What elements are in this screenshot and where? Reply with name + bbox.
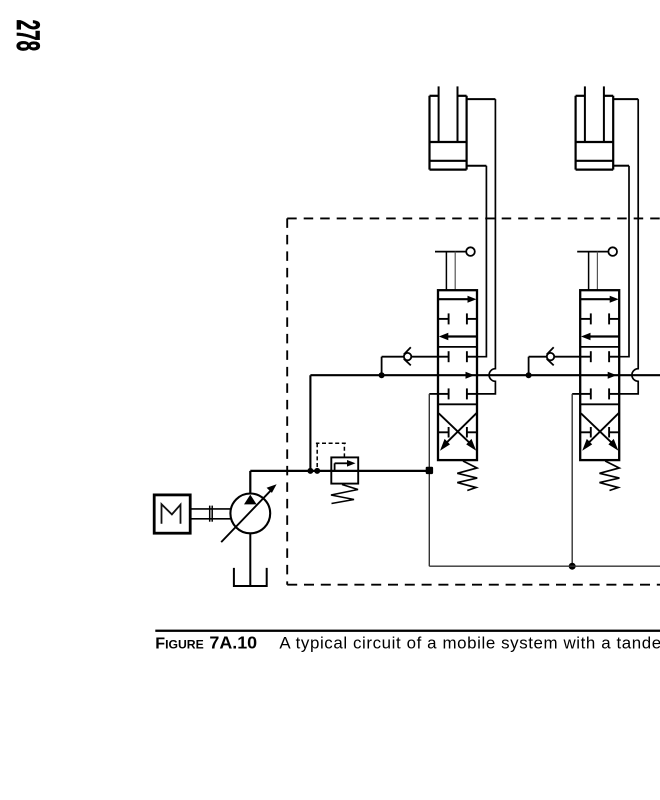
valve V1 blocked port pair 4 bbox=[438, 427, 477, 438]
relief valve RV1 body bbox=[331, 457, 358, 483]
directional valve V2 bbox=[577, 247, 619, 490]
valve V1 blocked port pair 1 bbox=[438, 313, 477, 324]
boundary top edge bbox=[287, 217, 660, 219]
cylinder CYL2 right wall bbox=[612, 96, 614, 170]
pump P1 suction pipe bbox=[249, 533, 251, 586]
cylinder CYL1 bbox=[430, 86, 467, 169]
wire cylinder CYL2 cap-end to valve V2 A-port bbox=[619, 166, 629, 357]
valve V2 blocked port pair 3 bbox=[580, 388, 619, 399]
valve V2 envelope flow arrow (left) bbox=[586, 335, 619, 337]
wire cylinder CYL1 cap-end to valve V1 A-port bbox=[477, 166, 486, 357]
wire branch from bypass to check valve CV2 bbox=[528, 357, 530, 376]
motor M1 box bbox=[154, 495, 190, 533]
valve V2 crossed envelope diagonal B bbox=[587, 413, 619, 444]
valve V1 blocked port pair 2 bbox=[438, 351, 477, 362]
valve V2 return spring bbox=[600, 461, 620, 491]
motor M1 letter M bbox=[162, 504, 181, 524]
cylinder CYL2 bottom edge bbox=[576, 169, 614, 171]
check valve CV2 ball bbox=[547, 353, 554, 360]
riser wire from pump line up to bypass line bbox=[309, 375, 311, 471]
wire valve V2 T-port down to return line bbox=[569, 394, 581, 570]
relief valve RV1 pilot line (dashed) bbox=[316, 443, 346, 471]
return line to tank bbox=[429, 565, 660, 567]
valve V2 blocked port pair 4 bbox=[580, 427, 619, 438]
check valve CV2 seat bbox=[547, 347, 554, 354]
valve V2 divider line 1 bbox=[580, 346, 619, 348]
cylinder CYL2 cap-end port line bbox=[613, 165, 629, 167]
valve V2 crossed envelope diagonal A bbox=[581, 413, 613, 444]
pump P1 outlet wire bbox=[249, 471, 251, 494]
svg-text:A typical circuit of a mobile: A typical circuit of a mobile system wit… bbox=[279, 633, 660, 652]
cylinder CYL1 right wall bbox=[466, 96, 468, 170]
junction dot at bypass branch 2 bbox=[526, 372, 532, 378]
valve V1 return spring bbox=[457, 461, 477, 491]
relief valve RV1 internal flow path arrow bbox=[334, 463, 336, 471]
pump P1 variable displacement arrow bbox=[221, 489, 272, 542]
valve V1 lever actuator bbox=[435, 251, 466, 253]
tank T1 bbox=[234, 568, 267, 586]
wire cylinder CYL1 rod-end to valve V1 B-port (with crossover hump) bbox=[477, 99, 495, 394]
wire cylinder CYL2 rod-end to valve V2 B-port (with crossover hump) bbox=[619, 99, 638, 394]
cylinder CYL2 rod-end port line bbox=[613, 98, 638, 100]
cylinder CYL2 rod bbox=[584, 86, 586, 142]
valve V1 divider line 1 bbox=[438, 346, 477, 348]
wire valve V1 T-port down to return line bbox=[426, 394, 438, 566]
page number 278 bbox=[10, 20, 47, 52]
check valve CV2 bbox=[526, 347, 581, 378]
valve V1 bypass flow arrow (right) on tandem line bbox=[466, 372, 475, 379]
valve V2 blocked port pair 2 bbox=[580, 351, 619, 362]
svg-text:278: 278 bbox=[10, 20, 47, 52]
pump P1 outlet triangle bbox=[244, 495, 257, 505]
valve V1 crossed envelope diagonal A bbox=[439, 413, 471, 444]
cylinder CYL2 piston bbox=[576, 141, 614, 143]
relief valve RV1 spring bbox=[331, 485, 358, 504]
dashed system boundary box bbox=[287, 218, 660, 584]
cylinder CYL1 cap-end port line bbox=[467, 165, 487, 167]
boundary bottom edge bbox=[287, 584, 660, 586]
cylinder CYL2 bbox=[576, 86, 614, 169]
cylinder CYL1 left wall bbox=[428, 96, 430, 170]
valve V1 blocked port pair 3 bbox=[438, 388, 477, 399]
valve V1 crossed envelope diagonal B bbox=[445, 413, 477, 444]
motor shaft bbox=[190, 508, 230, 510]
pump P1 circle bbox=[230, 494, 270, 534]
valve V1 envelope flow arrow (left) bbox=[444, 335, 477, 337]
valve V1 divider line 2 bbox=[438, 403, 477, 405]
check valve CV1 seat bbox=[404, 347, 411, 354]
junction dot pilot bbox=[314, 468, 320, 474]
wire branch from bypass to check valve CV1 bbox=[381, 357, 383, 376]
shaft coupling ticks bbox=[209, 506, 211, 522]
valve V2 top envelope flow arrow (right) bbox=[580, 298, 612, 300]
junction dot riser bbox=[307, 468, 313, 474]
valve V2 lever actuator bbox=[577, 251, 608, 253]
check valve CV1 bbox=[379, 347, 438, 378]
boundary left edge bbox=[286, 218, 288, 584]
junction dot at bypass branch 1 bbox=[379, 372, 385, 378]
check valve CV1 ball bbox=[404, 353, 411, 360]
pump supply line bbox=[250, 470, 429, 472]
cylinder CYL1 rod bbox=[438, 86, 440, 142]
cylinder CYL1 bottom edge bbox=[430, 169, 467, 171]
directional valve V1 bbox=[435, 247, 477, 490]
valve V2 divider line 2 bbox=[580, 403, 619, 405]
pump P1 (variable displacement) bbox=[221, 471, 276, 586]
junction block where pump line meets valve V1 drop wire bbox=[426, 467, 433, 474]
valve V1 body bbox=[438, 290, 477, 460]
cylinder CYL1 piston bbox=[430, 141, 467, 143]
valve V1 top envelope flow arrow (right) bbox=[438, 298, 470, 300]
valve V2 blocked port pair 1 bbox=[580, 313, 619, 324]
cylinder CYL2 top edge bbox=[576, 95, 585, 97]
relief valve RV1 bbox=[316, 443, 358, 503]
junction dot on return line bbox=[569, 563, 576, 570]
electric motor M1 bbox=[154, 495, 230, 533]
cylinder CYL1 top edge bbox=[430, 95, 439, 97]
cylinder CYL2 left wall bbox=[574, 96, 576, 170]
caption rule bbox=[155, 630, 660, 632]
cylinder CYL1 rod-end port line bbox=[467, 98, 496, 100]
valve V2 bypass flow arrow (right) on tandem line bbox=[608, 372, 617, 379]
valve V2 body bbox=[580, 290, 619, 460]
bypass / tandem-center line from pump riser through both valves bbox=[310, 374, 660, 376]
